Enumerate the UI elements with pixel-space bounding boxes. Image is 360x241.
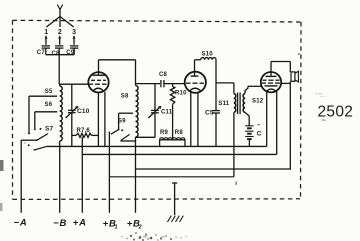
svg-text:−A: −A [14, 218, 28, 229]
svg-text:S9: S9 [118, 118, 126, 124]
svg-text:–: – [257, 123, 261, 129]
svg-text:R10: R10 [175, 91, 187, 97]
svg-text:2: 2 [58, 29, 62, 36]
svg-text:1: 1 [44, 29, 48, 36]
svg-text:C8: C8 [159, 72, 168, 78]
svg-text:C9: C9 [66, 50, 75, 56]
svg-text:R9: R9 [160, 130, 169, 136]
svg-text:C11: C11 [161, 110, 173, 116]
svg-text:2: 2 [138, 225, 143, 231]
svg-text:2502: 2502 [318, 103, 354, 120]
svg-text:−B: −B [53, 218, 67, 229]
svg-text:R7,6: R7,6 [77, 128, 91, 134]
svg-text:S8: S8 [121, 94, 129, 100]
svg-text:3: 3 [72, 29, 76, 36]
svg-text:C: C [257, 130, 262, 137]
svg-text:S5: S5 [45, 89, 53, 95]
svg-text:1: 1 [115, 225, 119, 231]
svg-text:S7: S7 [45, 126, 54, 133]
svg-text:C7: C7 [37, 50, 46, 56]
svg-text:S11: S11 [218, 101, 229, 107]
svg-text:S12: S12 [252, 99, 264, 105]
svg-text:+A: +A [73, 218, 87, 229]
svg-text:C10: C10 [77, 108, 90, 115]
svg-text:S6: S6 [45, 102, 53, 108]
svg-text:S10: S10 [202, 51, 214, 57]
svg-text:C8: C8 [52, 51, 61, 57]
svg-text:C5: C5 [205, 110, 214, 117]
svg-text:R8: R8 [175, 130, 184, 136]
